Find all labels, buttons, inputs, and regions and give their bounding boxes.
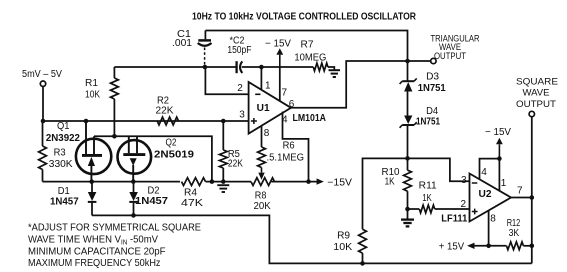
title: 10Hz TO 10kHz VOLTAGE CONTROLLED OSCILLATOR xyxy=(192,11,416,23)
wire node to U2 pin3 xyxy=(408,158,470,181)
label R10 xyxy=(382,167,400,178)
svg-text:3K: 3K xyxy=(509,228,520,239)
svg-text:1: 1 xyxy=(265,81,271,92)
note line 1 xyxy=(28,222,201,234)
wire node to R9 xyxy=(363,158,408,229)
label 3K value of R12 xyxy=(509,228,520,239)
label R6 xyxy=(283,141,295,152)
svg-text:4: 4 xyxy=(282,115,288,126)
resistor R4 47K xyxy=(182,178,206,186)
svg-text:WAVE: WAVE xyxy=(523,88,550,99)
label 150pF value of C2 xyxy=(227,45,251,56)
svg-text:R6: R6 xyxy=(283,141,295,152)
wire U1 pin4 to -15V rail xyxy=(283,112,309,182)
svg-text:U2: U2 xyxy=(479,189,492,200)
node U1 pin4 drop xyxy=(306,179,311,184)
ground below R5 xyxy=(217,185,229,192)
wire U2 pin1 xyxy=(498,159,500,191)
wire R4 to R8 xyxy=(206,181,252,183)
note line 2 xyxy=(28,234,158,247)
svg-text:20K: 20K xyxy=(254,201,272,212)
label Q2 xyxy=(166,138,177,149)
label 1N751 of D3 xyxy=(418,83,446,94)
node R5 top on pin3 wire xyxy=(221,119,226,124)
node Q1 source xyxy=(89,179,94,184)
capacitor C2 150pF xyxy=(237,61,248,73)
label WAVE square xyxy=(523,88,550,99)
resistor R8 20K potentiometer xyxy=(251,178,275,186)
svg-text:3: 3 xyxy=(461,175,467,186)
pin 1 label U2 xyxy=(501,178,507,189)
svg-text:4: 4 xyxy=(481,167,487,178)
wire U2 pin8 xyxy=(488,211,490,246)
node R1/drain tie xyxy=(112,134,117,139)
zener diode D4 1N751 xyxy=(400,116,417,128)
label R5 xyxy=(228,149,240,160)
label 10K value of R9 xyxy=(333,242,352,253)
resistor R1 10K xyxy=(111,67,119,136)
label R4 xyxy=(184,187,197,198)
svg-text:2: 2 xyxy=(461,199,467,210)
wire C1 node to C2 xyxy=(114,66,236,68)
wire U2 output xyxy=(511,197,532,199)
svg-text:2N3922: 2N3922 xyxy=(46,133,80,144)
label 1N751 of D4 xyxy=(416,117,440,128)
node input/R3 xyxy=(41,119,46,124)
svg-text:R11: R11 xyxy=(419,181,437,192)
label R12 xyxy=(507,218,521,229)
wire U1 pin1 xyxy=(260,67,262,90)
pin 7 label U2 xyxy=(517,186,523,197)
label R3 xyxy=(54,148,66,159)
label R11 xyxy=(419,181,437,192)
wire rail to D3 xyxy=(407,61,409,81)
pin 1 label U1 xyxy=(265,81,271,92)
label R7 xyxy=(301,40,314,51)
svg-text:LM101A: LM101A xyxy=(293,113,327,124)
svg-text:10K: 10K xyxy=(333,242,352,253)
label D2 xyxy=(148,186,160,197)
svg-text:1: 1 xyxy=(501,178,507,189)
pin 8 label U1 xyxy=(264,128,270,139)
svg-text:SQUARE: SQUARE xyxy=(516,77,558,88)
label 1N457 of D1 xyxy=(50,197,79,208)
label 10MEG value of R7 xyxy=(294,53,326,64)
svg-text:22K: 22K xyxy=(228,158,243,169)
svg-text:1N751: 1N751 xyxy=(416,117,440,128)
node R10 bottom xyxy=(405,207,410,212)
input label 5mV - 5V xyxy=(22,69,62,80)
node Q2 source xyxy=(131,179,136,184)
wire U1 pin2 xyxy=(205,67,248,94)
label 22K value of R5 xyxy=(228,158,243,169)
capacitor C1 .001 xyxy=(198,31,212,68)
resistor R12 3K xyxy=(507,242,532,250)
svg-text:R7: R7 xyxy=(301,40,314,51)
label SQUARE xyxy=(516,77,558,88)
note line 4 xyxy=(28,257,161,269)
svg-text:1K: 1K xyxy=(422,193,432,204)
label 2N5019 xyxy=(154,150,194,161)
label 2N3922 xyxy=(46,133,80,144)
label D4 xyxy=(426,106,438,117)
label R9 xyxy=(337,231,350,242)
pin 8 label U2 xyxy=(490,214,496,225)
svg-text:22K: 22K xyxy=(156,105,174,116)
label 47K value of R4 xyxy=(181,198,203,209)
ground after R7 xyxy=(329,70,341,77)
label LM101A xyxy=(293,113,327,124)
resistor R9 10K xyxy=(359,229,367,263)
wire R8 to -15V xyxy=(271,181,317,183)
label R2 xyxy=(157,95,169,106)
label 22K value of R2 xyxy=(156,105,174,116)
svg-text:1K: 1K xyxy=(385,177,395,188)
node triangle tap xyxy=(405,59,410,64)
svg-text:Q2: Q2 xyxy=(166,138,177,149)
label C1 xyxy=(177,29,191,40)
resistor R10 1K xyxy=(404,158,412,209)
node D2 bottom xyxy=(131,213,136,218)
label LF111 xyxy=(441,214,467,225)
node U1 pin1 tap xyxy=(259,65,264,70)
svg-text:U1: U1 xyxy=(257,103,270,114)
label R1 xyxy=(85,78,98,89)
wire U1 pin7 xyxy=(279,67,281,101)
svg-text:Q1: Q1 xyxy=(57,121,70,132)
svg-text:10K: 10K xyxy=(85,90,100,101)
pin 7 label U1 xyxy=(282,87,288,98)
wire input row to U1 pin3 xyxy=(43,120,249,122)
pin 6 label U1 xyxy=(289,99,295,110)
wire U2 pin4 xyxy=(480,159,500,180)
terminal square output xyxy=(529,111,534,116)
svg-text:R8: R8 xyxy=(255,191,267,202)
svg-text:10Hz TO 10kHz VOLTAGE CONTROLL: 10Hz TO 10kHz VOLTAGE CONTROLLED OSCILLA… xyxy=(192,11,416,23)
svg-text:150pF: 150pF xyxy=(227,45,251,56)
svg-text:7: 7 xyxy=(517,186,523,197)
node C1/pin2 tap xyxy=(203,65,208,70)
arrow -15V right xyxy=(317,178,353,189)
svg-text:330K: 330K xyxy=(49,159,73,170)
zener diode D3 1N751 xyxy=(400,78,417,91)
pin 2 label U1 xyxy=(237,83,243,94)
wire +15V row xyxy=(474,245,507,247)
pin 3 label U2 xyxy=(461,175,467,186)
svg-text:.5.1MEG: .5.1MEG xyxy=(267,152,305,163)
svg-text:MINIMUM CAPACITANCE 20pF: MINIMUM CAPACITANCE 20pF xyxy=(28,245,166,257)
transistor Q2 2N5019 xyxy=(118,136,152,181)
pin 4 label U1 xyxy=(282,115,288,126)
resistor R7 10MEG xyxy=(313,63,334,71)
transistor Q1 2N3922 xyxy=(76,121,111,182)
svg-text:R4: R4 xyxy=(184,187,197,198)
svg-text:1N751: 1N751 xyxy=(418,83,446,94)
svg-text:+ 15V: + 15V xyxy=(439,242,465,253)
pin 2 label U2 xyxy=(461,199,467,210)
svg-text:1N457: 1N457 xyxy=(50,197,79,208)
svg-text:R3: R3 xyxy=(54,148,66,159)
ground below R10 xyxy=(401,209,414,226)
svg-text:MAXIMUM FREQUENCY 50kHz: MAXIMUM FREQUENCY 50kHz xyxy=(28,257,161,269)
label Q1 xyxy=(57,121,70,132)
svg-text:R9: R9 xyxy=(337,231,350,242)
resistor R5 22K xyxy=(219,121,227,182)
label OUTPUT triangular xyxy=(434,51,466,62)
label U2 xyxy=(479,189,492,200)
wire U1 pin8 to R6 xyxy=(261,126,263,147)
svg-text:1N457: 1N457 xyxy=(135,196,168,207)
node zener bottom xyxy=(405,156,410,161)
label 1N457 of D2 xyxy=(135,196,168,207)
wire diode row xyxy=(92,215,532,263)
node drain-tie drop xyxy=(210,179,215,184)
svg-text:7: 7 xyxy=(282,87,288,98)
resistor R2 22K xyxy=(157,117,178,125)
node Q1 gate xyxy=(84,119,89,124)
wire triangle tap xyxy=(408,60,431,62)
label WAVE triangular xyxy=(439,42,461,53)
svg-text:−15V: −15V xyxy=(327,178,352,189)
label OUTPUT square xyxy=(516,99,556,110)
op-amp U2 triangle xyxy=(470,174,512,222)
svg-text:− 15V: − 15V xyxy=(485,127,511,138)
node U2 pin8 bottom xyxy=(486,244,491,249)
node -15V tap U2 xyxy=(497,156,502,161)
svg-text:*ADJUST FOR SYMMETRICAL SQUARE: *ADJUST FOR SYMMETRICAL SQUARE xyxy=(28,222,201,234)
label 330K value of R3 xyxy=(49,159,73,170)
node R5 bottom xyxy=(221,179,226,184)
input terminal xyxy=(40,81,45,86)
pin 4 label U2 xyxy=(481,167,487,178)
svg-text:2N5019: 2N5019 xyxy=(154,150,194,161)
label 10K value of R1 xyxy=(85,90,100,101)
wire top feedback xyxy=(205,31,407,62)
svg-text:47K: 47K xyxy=(181,198,203,209)
diode D2 1N457 xyxy=(129,182,138,216)
op-amp U1 triangle xyxy=(249,82,291,134)
wire U1 output to rail xyxy=(291,61,408,108)
label U1 xyxy=(257,103,270,114)
svg-text:LF111: LF111 xyxy=(441,214,467,225)
resistor R3 330K xyxy=(39,121,47,182)
svg-text:OUTPUT: OUTPUT xyxy=(516,99,556,110)
svg-text:8: 8 xyxy=(264,128,270,139)
svg-text:2: 2 xyxy=(237,83,243,94)
svg-text:6: 6 xyxy=(289,99,295,110)
svg-text:OUTPUT: OUTPUT xyxy=(434,51,466,62)
node R12 right on rail xyxy=(530,244,535,249)
resistor R11 1K xyxy=(408,205,470,213)
label 1K value of R11 xyxy=(422,193,432,204)
wire drain tie xyxy=(94,136,212,181)
svg-text:D3: D3 xyxy=(426,71,439,82)
node U2 output on rail xyxy=(530,195,535,200)
label *C2 xyxy=(230,36,245,47)
pin 3 label U1 xyxy=(239,110,245,121)
svg-text:R1: R1 xyxy=(85,78,98,89)
wire D4 to node xyxy=(407,125,409,158)
svg-text:− 15V: − 15V xyxy=(265,39,291,50)
svg-text:D1: D1 xyxy=(58,186,70,197)
node R9 bottom xyxy=(360,261,365,266)
power -15V to U2 xyxy=(485,127,511,159)
svg-text:8: 8 xyxy=(490,214,496,225)
wire input drop xyxy=(42,86,44,121)
wire source row xyxy=(43,181,181,183)
svg-text:.001: .001 xyxy=(172,38,192,49)
svg-text:5mV – 5V: 5mV – 5V xyxy=(22,69,62,80)
label D3 xyxy=(426,71,439,82)
power -15V to U1 pin7 xyxy=(265,39,291,68)
diode D1 1N457 xyxy=(88,182,97,216)
label 5.1MEG value of R6 xyxy=(267,152,305,163)
label .001 value of C1 xyxy=(172,38,192,49)
label 1K value of R10 xyxy=(385,177,395,188)
label TRIANGULAR xyxy=(431,33,480,44)
svg-text:10MEG: 10MEG xyxy=(294,53,326,64)
wire square rail xyxy=(531,117,533,264)
label 20K value of R8 xyxy=(254,201,272,212)
power +15V arrow xyxy=(439,242,475,253)
resistor R6 5.1MEG xyxy=(258,147,266,180)
label R8 xyxy=(255,191,267,202)
note line 3 xyxy=(28,245,166,257)
svg-text:3: 3 xyxy=(239,110,245,121)
wire D3 to D4 xyxy=(407,92,409,116)
svg-text:D4: D4 xyxy=(426,106,438,117)
label D1 xyxy=(58,186,70,197)
wire C2 to R7 xyxy=(248,66,313,68)
terminal triangular output xyxy=(431,58,436,63)
